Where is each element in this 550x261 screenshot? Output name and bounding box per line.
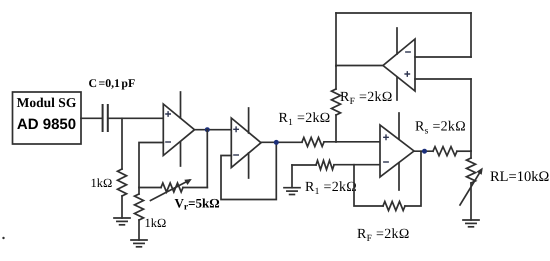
wire: 1k to ground — [138, 220, 140, 240]
wire: feedback corner down to 1k — [138, 188, 140, 195]
wire: junction branch down to R 1k — [121, 118, 123, 169]
capacitor C (C=0,1 pF) plates — [102, 105, 104, 131]
svg-text:C =0,1 pF: C =0,1 pF — [89, 76, 136, 90]
potentiometer Vr=5k zigzag — [161, 183, 183, 192]
wire: U4 output up to top rail — [335, 13, 337, 66]
op-amp U4 + sign — [405, 72, 409, 76]
ground (below pot) — [131, 239, 147, 241]
op-amp U2 triangle (buffer) — [231, 118, 261, 168]
ground (RL) — [463, 219, 479, 221]
potentiometer arrow — [151, 180, 190, 200]
op-amp U4 - sign — [406, 51, 410, 53]
wire: R1 to U3 + input (junction with RF) — [324, 141, 380, 143]
wire: top rail — [336, 12, 471, 14]
resistor RL=10k (variable load) — [467, 158, 476, 183]
wire: RF to + input junction — [335, 115, 337, 142]
wire: U4 + input — [415, 78, 471, 80]
wire: ground to R1 bottom — [292, 164, 316, 166]
svg-text:RL=10kΩ: RL=10kΩ — [490, 169, 549, 185]
svg-text:RF =2kΩ: RF =2kΩ — [357, 227, 410, 244]
svg-text:Vr=5kΩ: Vr=5kΩ — [175, 196, 220, 213]
Modul SG AD 9850 box — [13, 92, 82, 144]
svg-text:R1 =2kΩ: R1 =2kΩ — [279, 111, 331, 128]
wire: U1 output to U2 + input — [195, 129, 232, 131]
op-amp U2 - sign — [234, 154, 238, 156]
wire: U4 output down to RF — [335, 66, 337, 89]
resistor 1kOhm (input shunt) — [118, 169, 127, 196]
op-amp U3 - sign — [384, 161, 388, 163]
wire: U1 - input to feedback corner — [139, 143, 163, 188]
resistor 1kOhm (feedback to ground) — [135, 194, 144, 220]
svg-text:1kΩ: 1kΩ — [91, 176, 113, 190]
wire: U4 output to RF junction — [336, 65, 383, 67]
op-amp U4 triangle (left-pointing, positive feedback) — [383, 39, 415, 91]
svg-text:R1 =2kΩ: R1 =2kΩ — [305, 180, 357, 197]
wire: pot to node A vertical — [183, 187, 207, 189]
node C (U3 output junction dot) — [422, 149, 427, 154]
stray dot bottom left — [2, 237, 4, 239]
wire: resistor to ground — [121, 196, 123, 218]
resistor R1=2k (bottom, to U3 - input) — [316, 161, 334, 170]
ground (R1 bottom input) — [291, 165, 293, 188]
node B (U2 output junction dot) — [274, 140, 279, 145]
wire: U4 + input down to load node — [470, 79, 472, 151]
wire: R1 bottom to U3 - input — [334, 164, 380, 166]
wire: RF bottom to output — [405, 151, 421, 206]
op-amp U3 bottom power pin — [398, 163, 400, 190]
svg-text:AD 9850: AD 9850 — [17, 116, 76, 133]
wire: feedback bottom left segment — [139, 187, 161, 189]
wire: U4 - input — [415, 56, 471, 58]
ground (input shunt) — [114, 217, 130, 219]
wire: RL to ground — [470, 183, 472, 220]
wire: Rs to load node — [457, 150, 471, 152]
wire: U3 output to Rs — [414, 150, 433, 152]
op-amp U1 + sign — [166, 112, 170, 116]
wire: top rail down to U4 - input — [470, 13, 472, 57]
wire: U2 output to R1 — [261, 141, 302, 143]
node A (U1 output junction dot) — [205, 127, 210, 132]
wire: U3 feedback down from - input — [354, 165, 383, 206]
op-amp U1 - sign — [166, 141, 170, 143]
op-amp U2 bottom power pin — [248, 153, 250, 178]
RL arrow — [460, 171, 481, 206]
wire: load node down to RL — [470, 151, 472, 158]
svg-text:RF =2kΩ: RF =2kΩ — [340, 90, 393, 107]
op-amp U1 triangle — [163, 104, 194, 156]
svg-text:1kΩ: 1kΩ — [145, 216, 167, 230]
resistor R1=2k (top, to U3 + input) — [302, 138, 324, 147]
wire: capacitor to op-amp U1 + input — [108, 117, 164, 119]
resistor Rs=2k — [433, 147, 457, 156]
op-amp U4 bottom power pin — [396, 78, 398, 101]
op-amp U2 + sign — [234, 127, 238, 131]
op-amp U4 top power pin — [396, 28, 398, 54]
op-amp U3 + sign — [384, 135, 388, 139]
op-amp U2 top power pin — [248, 108, 250, 133]
svg-text:Rs =2kΩ: Rs =2kΩ — [415, 120, 466, 137]
op-amp U3 top power pin — [398, 113, 400, 139]
wire: node A down to feedback line — [206, 130, 208, 188]
wire: box output to capacitor — [81, 117, 102, 119]
wire: U2 - input feedback loop — [221, 143, 276, 200]
op-amp U3 triangle (output amp) — [380, 125, 414, 177]
op-amp U1 bottom power pin — [180, 142, 182, 166]
svg-text:Modul SG: Modul SG — [17, 95, 77, 110]
op-amp U1 top power pin — [180, 92, 182, 118]
resistor RF=2k (bottom feedback) — [383, 202, 405, 211]
resistor RF=2k (vertical from U4 output) — [332, 89, 341, 115]
